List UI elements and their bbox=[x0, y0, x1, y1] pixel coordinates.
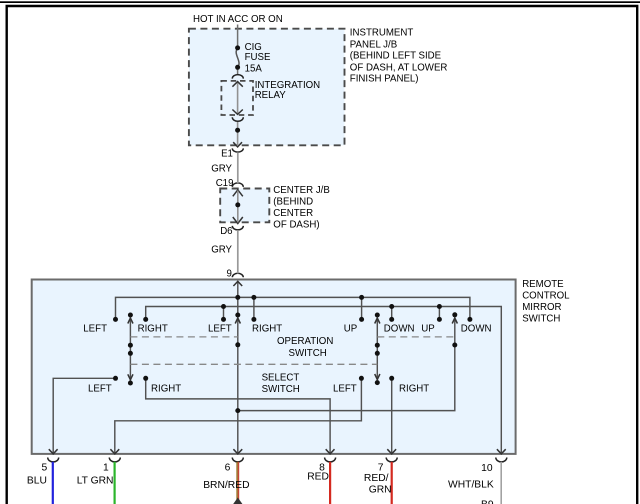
svg-text:7: 7 bbox=[378, 462, 384, 473]
svg-text:RED: RED bbox=[307, 472, 329, 483]
svg-text:BRN/RED: BRN/RED bbox=[203, 480, 249, 491]
svg-text:HOT IN ACC OR ON: HOT IN ACC OR ON bbox=[193, 14, 283, 25]
svg-text:OF DASH): OF DASH) bbox=[273, 220, 319, 231]
svg-text:BLU: BLU bbox=[27, 476, 47, 487]
svg-text:GRY: GRY bbox=[211, 245, 232, 256]
svg-text:DOWN: DOWN bbox=[384, 324, 415, 335]
svg-text:FINISH PANEL): FINISH PANEL) bbox=[350, 74, 419, 85]
svg-text:10: 10 bbox=[481, 463, 493, 474]
svg-text:WHT/BLK: WHT/BLK bbox=[448, 479, 494, 490]
svg-text:RELAY: RELAY bbox=[255, 90, 287, 101]
svg-text:9: 9 bbox=[227, 268, 232, 279]
svg-text:RED/: RED/ bbox=[364, 473, 389, 484]
svg-text:PANEL J/B: PANEL J/B bbox=[350, 39, 397, 50]
svg-text:15A: 15A bbox=[245, 63, 263, 74]
svg-text:E1: E1 bbox=[221, 149, 233, 160]
svg-text:B9: B9 bbox=[481, 499, 494, 504]
svg-text:RIGHT: RIGHT bbox=[138, 324, 168, 335]
svg-text:6: 6 bbox=[225, 462, 231, 473]
svg-text:OF DASH, AT LOWER: OF DASH, AT LOWER bbox=[350, 63, 448, 74]
svg-text:GRN: GRN bbox=[369, 484, 392, 495]
svg-text:LT GRN: LT GRN bbox=[77, 476, 114, 487]
svg-text:(BEHIND LEFT SIDE: (BEHIND LEFT SIDE bbox=[350, 51, 442, 62]
svg-text:CONTROL: CONTROL bbox=[522, 291, 570, 302]
svg-text:LEFT: LEFT bbox=[333, 383, 357, 394]
svg-text:RIGHT: RIGHT bbox=[399, 383, 429, 394]
svg-text:REMOTE: REMOTE bbox=[522, 279, 564, 290]
svg-text:RIGHT: RIGHT bbox=[252, 324, 282, 335]
svg-text:LEFT: LEFT bbox=[88, 383, 112, 394]
svg-text:MIRROR: MIRROR bbox=[522, 302, 561, 313]
svg-text:OPERATION: OPERATION bbox=[277, 336, 333, 347]
svg-text:D6: D6 bbox=[220, 226, 232, 237]
svg-text:SWITCH: SWITCH bbox=[522, 314, 560, 325]
svg-text:C19: C19 bbox=[216, 178, 234, 189]
svg-text:GRY: GRY bbox=[211, 164, 232, 175]
svg-text:FUSE: FUSE bbox=[245, 52, 271, 63]
svg-text:(BEHIND: (BEHIND bbox=[273, 197, 313, 208]
svg-text:UP: UP bbox=[344, 324, 357, 335]
svg-text:SWITCH: SWITCH bbox=[289, 348, 327, 359]
svg-text:DOWN: DOWN bbox=[461, 324, 492, 335]
svg-text:INSTRUMENT: INSTRUMENT bbox=[350, 28, 414, 39]
svg-text:LEFT: LEFT bbox=[83, 324, 107, 335]
svg-text:UP: UP bbox=[421, 324, 434, 335]
svg-text:CENTER: CENTER bbox=[273, 208, 313, 219]
svg-text:CENTER J/B: CENTER J/B bbox=[273, 185, 330, 196]
svg-text:SELECT: SELECT bbox=[262, 373, 300, 384]
svg-text:LEFT: LEFT bbox=[208, 324, 232, 335]
svg-text:SWITCH: SWITCH bbox=[262, 384, 300, 395]
svg-text:5: 5 bbox=[42, 462, 48, 473]
svg-text:1: 1 bbox=[103, 462, 109, 473]
svg-text:RIGHT: RIGHT bbox=[151, 383, 181, 394]
